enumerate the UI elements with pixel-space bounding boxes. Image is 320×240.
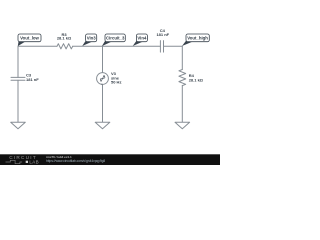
voltage source minus mark — [101, 83, 103, 85]
voltage source V3 circle — [97, 73, 109, 85]
footer bar — [0, 154, 220, 165]
wire right branch lower — [181, 86, 183, 123]
node flag Vout_high — [182, 34, 209, 46]
node flag Circuit_3 — [102, 34, 125, 46]
svg-text:Vout_low: Vout_low — [20, 36, 39, 41]
svg-text:50 Hz: 50 Hz — [111, 80, 121, 85]
svg-text:https://www.circuitlab.com/c/g: https://www.circuitlab.com/c/gn44vpqy9g8 — [46, 159, 105, 163]
wire top left segment — [18, 45, 57, 47]
wire middle branch lower — [102, 84, 104, 122]
capacitor C3 — [11, 77, 25, 80]
wire right branch upper — [181, 46, 183, 69]
svg-text:LAB: LAB — [29, 159, 39, 164]
voltage source V3 sine glyph — [99, 74, 105, 82]
node flag Vin4 — [133, 34, 148, 46]
footer logo waveform — [6, 160, 23, 163]
ground middle — [95, 122, 110, 129]
wire left branch lower — [17, 80, 19, 122]
resistor R3 — [57, 44, 73, 49]
resistor R4 — [179, 70, 186, 86]
wire left branch upper — [17, 46, 19, 77]
svg-text:Circuit_3: Circuit_3 — [106, 36, 125, 41]
wire middle branch upper — [102, 46, 104, 72]
svg-text:28.1 kΩ: 28.1 kΩ — [189, 78, 204, 83]
svg-text:181 nF: 181 nF — [26, 77, 39, 82]
ground left — [11, 122, 26, 129]
wire top middle segment — [73, 45, 161, 47]
footer logo accent square — [26, 161, 28, 163]
svg-text:Vout_high: Vout_high — [187, 36, 208, 41]
node flag Vin3 — [82, 34, 97, 46]
node flag Vout_low — [18, 34, 41, 46]
capacitor C4 — [160, 41, 163, 53]
svg-text:28.1 kΩ: 28.1 kΩ — [57, 36, 72, 41]
wire top right segment — [164, 45, 183, 47]
svg-text:Vin4: Vin4 — [137, 36, 147, 41]
svg-text:Vin3: Vin3 — [87, 36, 97, 41]
ground right — [175, 122, 190, 129]
svg-text:181 nF: 181 nF — [156, 32, 169, 37]
